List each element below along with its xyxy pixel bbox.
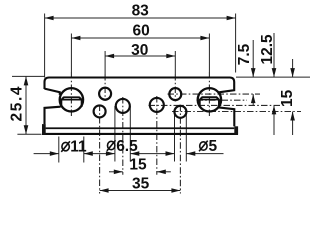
svg-text:83: 83	[132, 3, 150, 20]
part outline: bottom flange left end cap	[42, 124, 46, 135]
hole A d5 upper left	[99, 88, 111, 100]
extension line: d5 left	[174, 112, 176, 162]
extension line: 25.4 bottom	[17, 133, 41, 135]
part outline: left mouth upper lip (slant and step)	[45, 89, 60, 95]
center line: row A-E horizontal	[168, 93, 261, 95]
center line: big right slot horizontal	[197, 99, 248, 101]
extension line: d6.5 left	[114, 106, 116, 162]
big slotted hole right slot	[200, 97, 219, 99]
extension line: d5 right	[185, 112, 187, 162]
center line: row B-F horizontal	[172, 111, 301, 113]
center line: hole E vertical	[174, 51, 176, 74]
hole B d5 lower left	[94, 105, 106, 117]
extension line: top edge extended right	[236, 76, 310, 78]
dimension 15 bottom line right	[157, 171, 171, 173]
dimension d6.5 text	[108, 141, 115, 149]
hole C d6.5 left middle	[116, 99, 130, 113]
extension line: d11 left	[58, 137, 60, 163]
dimension 30 line	[105, 55, 175, 57]
extension line: 83 left	[44, 14, 46, 78]
center line: hole F vertical	[179, 105, 181, 194]
dimension d6.5 line right	[130, 153, 174, 155]
dimension 7.5 line upper	[252, 40, 254, 77]
svg-text:5: 5	[209, 138, 218, 155]
svg-text:11: 11	[70, 139, 87, 156]
dimension 25.4 line	[25, 76, 27, 134]
big slotted hole right circle	[198, 88, 221, 111]
part outline: left mouth lower lip and left lower edge	[45, 107, 61, 125]
center line: row C-D horizontal	[149, 104, 282, 106]
big slotted hole left slot	[61, 97, 81, 99]
part outline: bottom flange top line	[46, 127, 235, 129]
hole D d6.5 right middle	[150, 98, 164, 112]
svg-text:15: 15	[129, 156, 147, 173]
dimension 15 right line lower	[292, 112, 294, 136]
svg-text:35: 35	[132, 176, 150, 193]
part outline: bottom flange right end cap	[234, 126, 238, 134]
dimension d11 line left tail	[34, 153, 59, 155]
center line: hole A vertical	[104, 51, 106, 74]
svg-text:15: 15	[279, 89, 296, 107]
extension line: 83 right	[235, 14, 237, 73]
part outline: top edge with side edges and right mouth upper lip	[45, 78, 235, 95]
svg-text:6.5: 6.5	[116, 138, 138, 155]
hole E d5 upper right	[169, 88, 181, 100]
hole F d5 lower right	[174, 106, 186, 118]
dimension d11 line middle	[84, 153, 115, 155]
dimension d5 line right tail	[186, 153, 223, 155]
center line: hole D vertical	[156, 96, 158, 175]
svg-text:25.4: 25.4	[9, 85, 26, 122]
svg-text:60: 60	[132, 23, 149, 40]
part outline: right mouth lower lip and right lower edge	[219, 107, 235, 126]
center line: big left slot vertical	[70, 34, 72, 73]
dimension 83 line	[45, 17, 236, 19]
dimension 15 right line upper	[292, 59, 294, 77]
center line: big right slot vertical	[208, 34, 210, 73]
dimension d5 text	[200, 142, 207, 150]
dimension d11 text	[62, 142, 69, 150]
extension line: d6.5 right	[129, 106, 131, 162]
svg-text:30: 30	[131, 42, 148, 59]
extension line: d11 right	[83, 137, 85, 163]
svg-text:7.5: 7.5	[236, 43, 253, 65]
svg-text:12.5: 12.5	[259, 34, 276, 65]
dimension 7.5 line lower	[252, 94, 254, 106]
center line: hole B vertical	[99, 105, 101, 194]
big slotted hole left circle	[60, 88, 83, 111]
dimension 35 line	[100, 190, 181, 192]
extension line: 25.4 top	[12, 75, 45, 77]
part outline: bottom flange bottom line	[42, 133, 238, 135]
center line: hole C vertical	[122, 97, 124, 175]
dimension 12.5 line upper	[273, 33, 275, 77]
dimension 15 bottom line left	[109, 171, 123, 173]
dimension 60 line	[71, 37, 209, 39]
dimension 12.5 line lower	[273, 105, 275, 135]
